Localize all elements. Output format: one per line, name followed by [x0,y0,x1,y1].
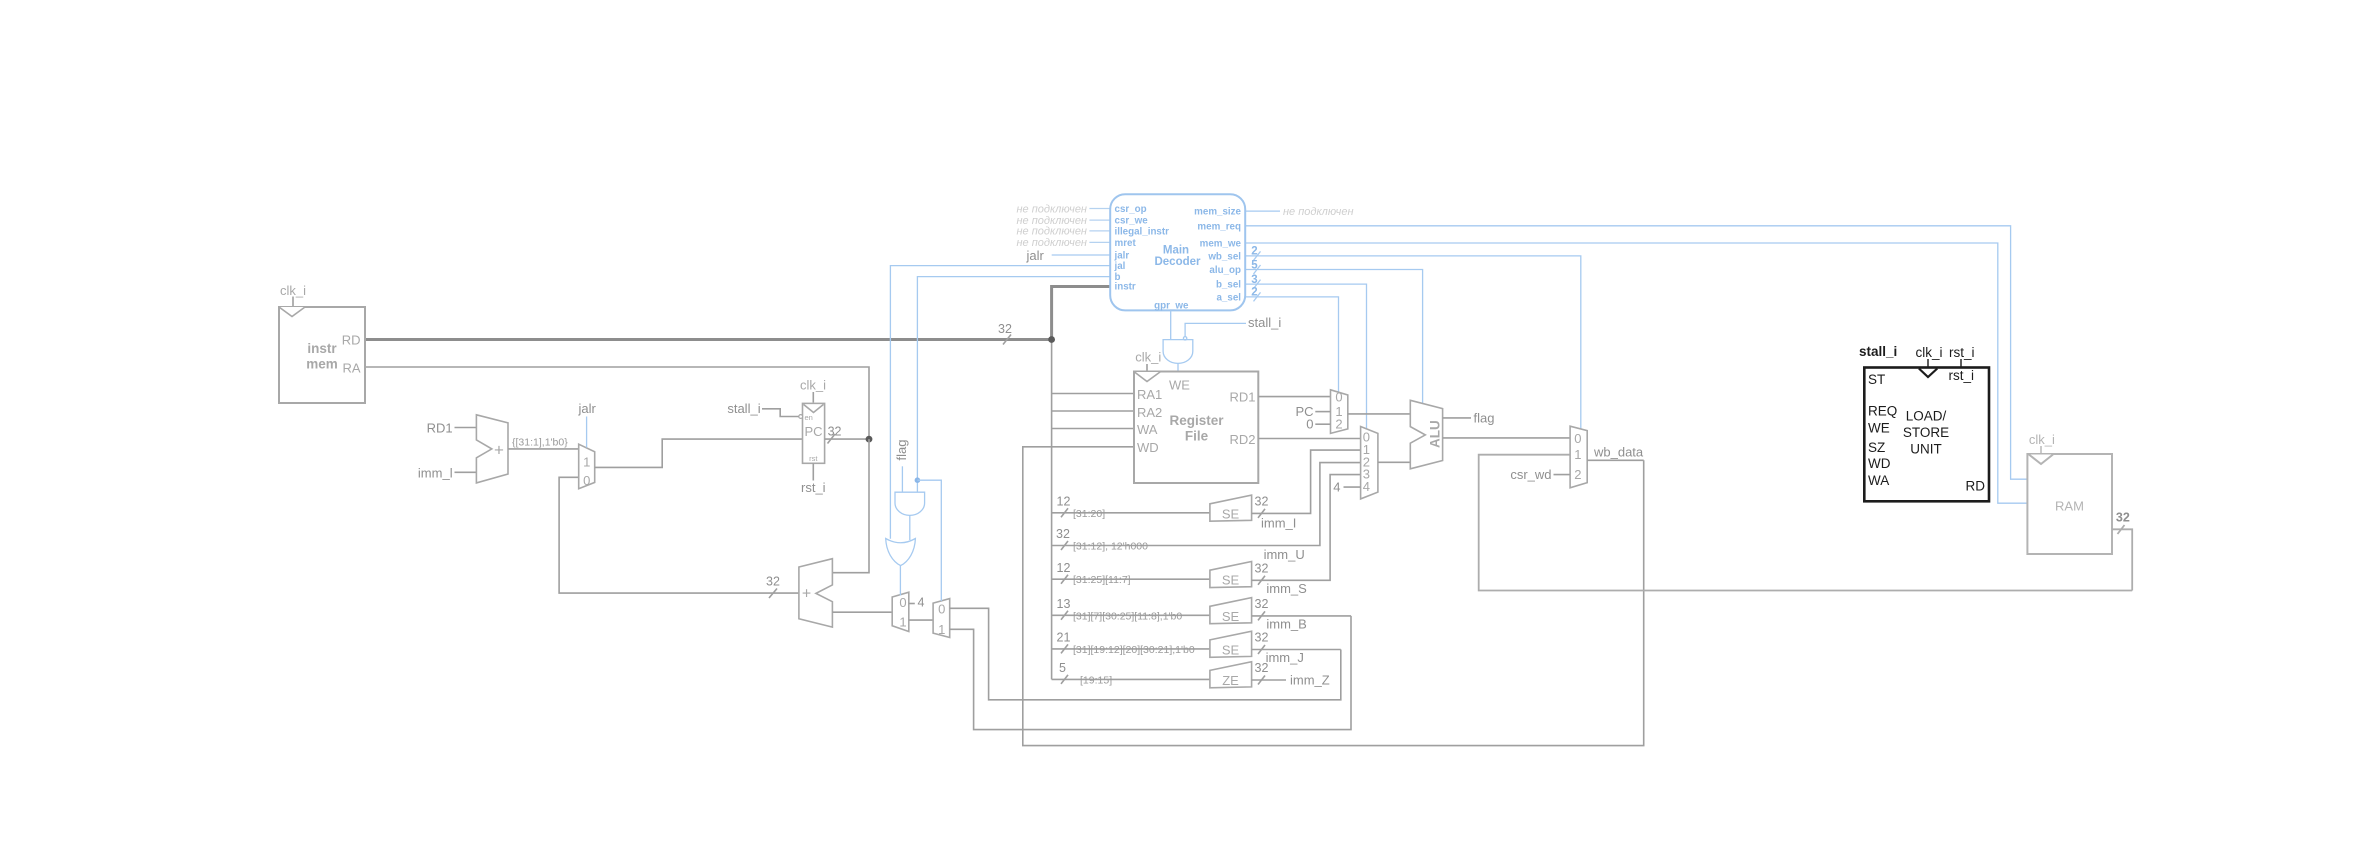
svg-text:ALU: ALU [1428,420,1443,448]
alu U2 [1410,400,1442,469]
wire RA1 [1052,393,1134,395]
node PC output junction [866,436,873,443]
adder A1 (RD1+imm_I) [476,415,508,483]
svg-text:b_sel: b_sel [1216,280,1241,291]
svg-text:clk_i: clk_i [800,378,826,393]
svg-text:0: 0 [1306,417,1313,432]
svg-text:stall_i: stall_i [1859,344,1897,359]
svg-text:clk_i: clk_i [1916,345,1943,360]
svg-text:0: 0 [583,473,590,488]
svg-text:SE: SE [1222,609,1240,624]
svg-text:RA2: RA2 [1137,405,1162,420]
wire flag output [1443,417,1471,419]
svg-text:UNIT: UNIT [1910,442,1942,457]
svg-text:SE: SE [1222,506,1240,521]
wire gpr_we to AND gate [1170,310,1172,339]
svg-text:jal: jal [1114,261,1126,272]
wire imm_J row input [1052,648,1210,650]
wire AND B1 out to OR gate [909,515,911,540]
svg-text:RA1: RA1 [1137,387,1162,402]
svg-text:clk_i: clk_i [2029,432,2055,447]
register file block [1134,372,1258,484]
wire imm_J loop to mux M3 input 0 [950,608,1341,700]
svg-text:imm_Z: imm_Z [1290,672,1330,687]
wire RAM read data out [2112,529,2132,590]
svg-text:csr_we: csr_we [1115,216,1149,227]
wire stall_i to AND gate inverted input [1185,323,1246,336]
wire csr_op nc stub [1089,208,1110,210]
svg-text:RD1: RD1 [427,421,453,436]
svg-text:PC: PC [804,424,822,439]
wire RA from instr mem to PC junction [365,367,869,439]
wire RAM read data to wb mux input 1 [1479,455,2133,591]
svg-text:mem: mem [306,357,338,372]
clock triangle RAM [2029,455,2053,465]
svg-text:SE: SE [1222,642,1240,657]
svg-text:[31][7][30:25][11:8],1'b0: [31][7][30:25][11:8],1'b0 [1073,610,1182,622]
wire wb_sel to wb mux select [1245,256,1581,429]
svg-text:32: 32 [1255,631,1269,645]
svg-text:csr_op: csr_op [1115,204,1147,215]
svg-text:instr: instr [1115,282,1136,293]
svg-text:imm_B: imm_B [1266,616,1306,631]
wire imm_B loop to mux M3 input 1 [950,616,1351,730]
svg-text:rst: rst [809,454,818,463]
svg-text:32: 32 [2116,511,2130,525]
svg-text:[31:25][11:7]: [31:25][11:7] [1073,574,1131,586]
svg-text:не подключен: не подключен [1016,226,1087,238]
svg-text:imm_I: imm_I [1261,516,1296,531]
mux A (a_sel) [1331,390,1348,434]
svg-text:Main: Main [1163,245,1189,257]
wire 0 stub to mux A input 2 [1315,423,1330,425]
wire alu_op to ALU select [1245,270,1422,404]
svg-text:imm_S: imm_S [1266,581,1307,596]
svg-text:4: 4 [1363,479,1370,494]
wire b from decoder to AND gate [917,277,1110,493]
svg-text:RD: RD [1966,479,1986,494]
svg-text:+: + [494,441,504,460]
wire RA2 [1052,410,1134,412]
svg-text:gpr_we: gpr_we [1154,301,1189,312]
svg-text:SZ: SZ [1868,440,1885,455]
extender SE imm_B [1210,598,1252,624]
wire mret nc stub [1089,241,1110,243]
load/store unit U3 [1864,368,1989,502]
svg-text:rst_i: rst_i [1948,368,1974,383]
svg-text:wb_data: wb_data [1593,445,1644,460]
svg-text:2: 2 [1335,416,1342,431]
wire a_sel to a mux select [1245,297,1338,393]
svg-text:stall_i: stall_i [1248,315,1281,330]
svg-text:csr_wd: csr_wd [1510,467,1551,482]
svg-text:illegal_instr: illegal_instr [1115,226,1170,237]
mux M2 (4 / imm) faces left [892,592,909,631]
svg-text:WD: WD [1868,456,1891,471]
svg-text:ZE: ZE [1222,673,1239,688]
svg-text:12: 12 [1057,561,1071,575]
wire imm_S row input [1052,578,1210,580]
wire wb mux out (wb_data) [1587,459,1644,461]
svg-text:clk_i: clk_i [1135,350,1161,365]
wire imm_S out to b mux [1252,475,1361,581]
wire WA [1052,428,1134,430]
svg-text:mem_we: mem_we [1200,239,1242,250]
wire PC stub to mux A input 1 [1315,411,1330,413]
clock triangle PC [804,404,824,412]
wire 4 stub to mux B input 4 [1344,486,1361,488]
ram block [2027,454,2112,554]
wire ALU out to wb mux input 0 [1443,437,1571,439]
svg-text:не подключен: не подключен [1016,203,1087,215]
svg-text:RD: RD [342,333,361,348]
wire mem_we to RAM [1245,243,2027,503]
mux B (b_sel) [1361,427,1378,499]
wire mem_size stub [1245,210,1280,212]
svg-text:0: 0 [1335,390,1342,405]
wire mem_req to RAM [1245,226,2027,479]
svg-text:13: 13 [1057,597,1071,611]
constant 4 on mux M2 input 0 [909,603,915,605]
wire PC junction down to adder A2 [832,439,869,573]
wire RD1 to a mux input 0 [1258,396,1330,398]
svg-text:WA: WA [1137,422,1158,437]
svg-text:Register: Register [1169,413,1224,428]
wire imm_Z out stub [1252,679,1286,681]
svg-text:alu_op: alu_op [1209,265,1241,276]
wire mux B out to ALU [1378,461,1410,463]
wire mux M2 output to adder A2 lower input [832,611,892,613]
svg-text:Decoder: Decoder [1154,256,1201,268]
wire AND out to WE [1177,364,1179,372]
svg-text:LOAD/: LOAD/ [1906,409,1947,424]
svg-text:SE: SE [1222,573,1240,588]
instr mem block [279,307,365,403]
svg-text:mem_size: mem_size [1194,207,1241,218]
svg-text:REQ: REQ [1868,404,1897,419]
wire OR B2 out to mux M2 select [899,565,901,595]
svg-text:32: 32 [828,425,842,439]
svg-text:jalr: jalr [578,401,597,416]
svg-text:32: 32 [1255,597,1269,611]
svg-text:+: + [802,586,811,603]
svg-text:[31][19:12][20][30:21],1'b0: [31][19:12][20][30:21],1'b0 [1073,644,1195,656]
svg-text:RAM: RAM [2055,499,2084,514]
svg-text:32: 32 [1255,561,1269,575]
wire imm_J out [1252,649,1341,651]
svg-text:0: 0 [938,602,945,617]
extender SE imm_J [1210,631,1252,657]
wire PC output to junction [825,438,869,440]
gate AND B1 (b & flag) [895,492,925,515]
wire RD1 to adder A1 [455,427,477,429]
clock triangle register file [1135,372,1161,382]
wire mux M3 out to mux M2 input 1 [909,619,933,621]
svg-text:jalr: jalr [1025,248,1044,263]
svg-text:32: 32 [1255,661,1269,675]
svg-text:не подключен: не подключен [1283,206,1354,218]
svg-text:1: 1 [1574,447,1581,462]
svg-text:[31:12], 12'h000: [31:12], 12'h000 [1073,541,1148,553]
svg-text:flag: flag [1474,411,1495,426]
svg-text:jalr: jalr [1114,251,1130,262]
svg-text:flag: flag [894,440,909,461]
svg-text:1: 1 [583,455,590,470]
svg-text:File: File [1185,429,1209,444]
node b net junction [915,477,921,483]
wire imm_I to adder A1 [455,471,477,473]
svg-text:5: 5 [1059,661,1066,675]
svg-text:12: 12 [1057,495,1071,509]
wire imm_Z row input [1052,678,1210,680]
wire csr_we nc stub [1089,219,1110,221]
svg-text:imm_U: imm_U [1264,547,1305,562]
extender ZE imm_Z [1210,662,1252,688]
mux M3 (imm_J / imm_B) faces left [933,599,950,638]
svg-text:[19:15]: [19:15] [1080,674,1112,686]
extender SE imm_I [1210,495,1252,521]
wire mux A out to ALU [1348,413,1411,415]
wire adder A2 output to jalr mux input 0 [559,477,799,593]
wire imm_I out to b mux [1252,450,1361,513]
svg-text:WE: WE [1169,378,1190,393]
wire jalr select [586,417,588,448]
svg-text:RD2: RD2 [1229,432,1255,447]
wire csr_wd stub to wb mux input 2 [1554,474,1571,476]
svg-text:2: 2 [1574,467,1581,482]
wire stall_i to PC en [762,409,799,417]
svg-text:RA: RA [342,361,360,376]
svg-text:rst_i: rst_i [801,480,826,495]
svg-text:ST: ST [1868,372,1885,387]
adder A2 (PC + 4/imm) mirrored [799,559,833,627]
svg-text:4: 4 [1333,479,1340,494]
svg-text:instr: instr [307,341,337,356]
wire jal from decoder to OR gate [890,266,1110,539]
svg-text:mem_req: mem_req [1197,221,1241,232]
wire RD2 to b mux input 0 [1258,438,1360,440]
main decoder U1 [1110,194,1245,310]
svg-text:wb_sel: wb_sel [1207,251,1241,262]
svg-text:RD1: RD1 [1229,390,1255,405]
wire flag to AND gate B1 [901,466,903,492]
svg-text:mret: mret [1115,238,1137,249]
wire jalr label to decoder [1052,254,1111,256]
svg-text:1: 1 [938,622,945,637]
svg-text:WD: WD [1137,440,1159,455]
extender SE imm_S [1210,562,1252,588]
svg-text:a_sel: a_sel [1216,292,1241,303]
svg-text:rst_i: rst_i [1949,345,1975,360]
wire adder A1 output to jalr mux [508,448,579,450]
svg-text:imm_l: imm_l [418,466,453,481]
wire illegal_instr nc stub [1089,230,1110,232]
wire jalr mux out to PC [595,439,803,467]
wire imm_I row input [1052,512,1210,514]
svg-text:imm_J: imm_J [1266,650,1304,665]
wire WD writeback [1023,447,1644,746]
svg-text:32: 32 [998,322,1012,336]
svg-text:WE: WE [1868,421,1890,436]
gate AND (gpr_we & !stall_i) [1183,337,1186,340]
wire RD instr bus (thick) [365,338,1052,341]
svg-text:32: 32 [766,575,780,589]
node instr bus junction [1048,336,1055,343]
svg-text:clk_i: clk_i [280,283,306,298]
svg-text:[31:20]: [31:20] [1073,508,1105,520]
wire imm_U row to b mux [1052,463,1361,546]
gate OR B2 (jal | (b & flag)) [886,539,916,566]
clock input triangle instr mem [279,307,305,317]
wire rst_i stub [812,463,814,480]
wire b branch to mux M3 select [917,480,941,601]
svg-text:1: 1 [899,615,906,630]
svg-text:32: 32 [1056,527,1070,541]
wire b_sel to b mux select [1245,284,1366,429]
svg-text:{[31:1],1'b0}: {[31:1],1'b0} [512,437,568,449]
register PC [803,403,825,463]
clock triangle LSU [1919,369,1937,378]
svg-text:WA: WA [1868,473,1889,488]
svg-text:21: 21 [1057,631,1071,645]
svg-text:4: 4 [918,596,925,610]
svg-text:32: 32 [1255,495,1269,509]
svg-text:0: 0 [1574,431,1581,446]
wire imm_B row input [1052,614,1210,616]
svg-text:en: en [805,413,813,422]
svg-text:stall_i: stall_i [727,401,760,416]
mux WB (wb_sel) [1570,426,1587,488]
svg-text:0: 0 [899,595,906,610]
jalr mux M1 [579,444,595,489]
wire imm_B out [1252,615,1351,617]
svg-text:не подключен: не подключен [1016,237,1087,249]
svg-text:STORE: STORE [1903,425,1949,440]
wire instr bus vertical to immediates [1051,340,1053,680]
